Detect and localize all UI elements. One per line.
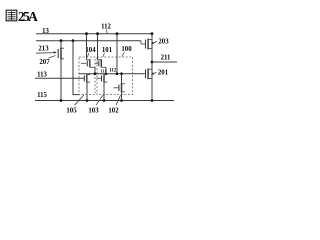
svg-text:211: 211: [161, 55, 171, 62]
transistor 102 (lower right): [114, 83, 125, 93]
wire: bottom bus 115: [35, 100, 174, 102]
transistor 207 (left): [58, 48, 64, 60]
wire: vertical left drop x61: [60, 41, 62, 101]
svg-text:100: 100: [121, 46, 132, 53]
node dot bottom x121.5: [120, 99, 123, 102]
svg-text:104: 104: [85, 47, 96, 54]
wire: line 113: [35, 77, 84, 79]
svg-text:103: 103: [88, 107, 99, 114]
wire: word line 13 (top bus A): [36, 33, 152, 35]
transistor 201: [144, 68, 152, 79]
wire 103 source to bottom: [103, 82, 105, 100]
node dot on A at x97.5: [96, 32, 99, 35]
svg-text:112: 112: [109, 68, 117, 73]
wire vertical from A x117 to mid line: [116, 34, 118, 74]
title figure label 圖25A: [6, 10, 17, 21]
leader from 112 to bus A: [106, 30, 107, 34]
svg-text:101: 101: [102, 47, 113, 54]
svg-text:203: 203: [158, 38, 169, 45]
node dot mid x95: [94, 72, 97, 75]
node dot mid x106: [105, 73, 107, 75]
svg-text:115: 115: [37, 92, 47, 99]
node dot bottom x61: [60, 99, 63, 102]
wire: output line 211: [152, 61, 177, 63]
wire: second bus B: [36, 40, 141, 42]
wire drain 104 to mid line: [94, 67, 96, 73]
svg-text:25A: 25A: [18, 9, 38, 24]
node dot on B at x73: [72, 39, 75, 42]
dashed cell box right: [97, 57, 133, 95]
node dot mid x117: [116, 72, 119, 75]
node dot on A at x117: [116, 32, 119, 35]
svg-text:112: 112: [101, 24, 111, 31]
node dot on B at x61: [60, 39, 63, 42]
wire vertical from A x86.5: [86, 34, 88, 60]
wire from mid node down to transistor 102: [121, 74, 123, 83]
svg-text:113: 113: [37, 72, 47, 79]
elbow from bus B to gate of 203: [141, 41, 145, 44]
svg-text:207: 207: [39, 59, 50, 66]
transistor 203: [146, 39, 153, 50]
dashed cell box left: [79, 57, 95, 95]
node dot bottom x87: [86, 99, 89, 102]
node dot on A at x86.5: [85, 32, 88, 35]
wire: vertical drop x73 with corner into cell: [73, 41, 80, 95]
svg-text:213: 213: [38, 46, 49, 53]
wire: mid storage node line: [79, 73, 144, 75]
svg-text:105: 105: [66, 107, 77, 114]
svg-text:111: 111: [100, 68, 106, 73]
transistor 101: [96, 59, 107, 67]
svg-text:201: 201: [158, 70, 169, 77]
transistor 103 (lower middle): [97, 74, 108, 82]
wire drain 101 to mid line: [105, 67, 107, 73]
node dot mid x121.5: [120, 72, 123, 75]
transistor 104: [81, 59, 95, 67]
wire 102 to bottom bus: [121, 93, 123, 101]
transistor 105 (lower left): [84, 74, 90, 82]
node dot on A at x152: [151, 32, 154, 35]
wire vertical from A x97.5: [97, 34, 99, 60]
wire: right vertical x152: [151, 34, 153, 101]
node dot right x152 y62: [151, 61, 154, 64]
wire 105 source to bottom: [86, 82, 88, 100]
svg-text:13: 13: [42, 28, 49, 35]
node dot bottom x152: [151, 99, 154, 102]
svg-text:102: 102: [108, 107, 119, 114]
node dot bottom x104: [103, 99, 106, 102]
